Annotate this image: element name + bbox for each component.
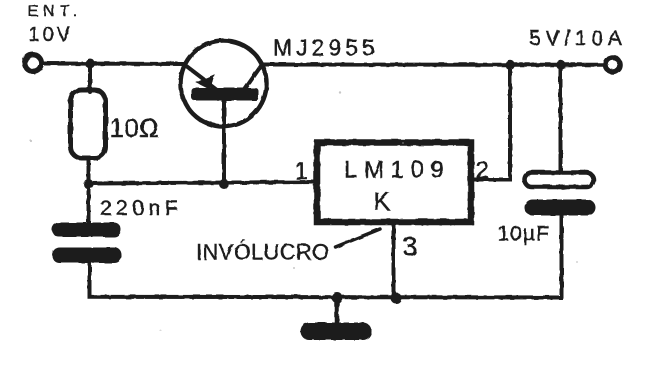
ground <box>301 298 372 341</box>
pin 1 label <box>295 158 308 185</box>
label 10uF <box>498 223 550 246</box>
svg-text:1: 1 <box>295 158 308 185</box>
node junction capacitor C2 riser <box>556 60 566 70</box>
wire resistor bottom to middle node <box>87 158 91 184</box>
label MJ2955 <box>273 35 379 61</box>
svg-text:K: K <box>374 188 391 216</box>
scan speckles <box>30 91 578 331</box>
wire pin 2 to output riser <box>471 65 510 180</box>
transistor Q1 MJ2955 <box>181 41 267 127</box>
wire output node down to capacitor C2 <box>559 65 563 173</box>
wire capacitor C2 to bottom rail <box>560 216 564 298</box>
svg-text:10V: 10V <box>29 24 74 46</box>
svg-text:INVÓLUCRO: INVÓLUCRO <box>196 240 330 265</box>
svg-text:220nF: 220nF <box>100 197 182 220</box>
svg-text:3: 3 <box>403 232 418 262</box>
svg-text:ENT.: ENT. <box>28 3 83 20</box>
svg-text:10µF: 10µF <box>498 223 550 246</box>
resistor R1 10 ohm <box>71 90 106 158</box>
leader line involucro to case pin <box>336 229 381 247</box>
node junction pin 3 <box>391 293 402 304</box>
capacitor C1 220nF plate bottom <box>52 248 122 264</box>
output terminal 5V/10A <box>605 57 620 72</box>
svg-text:10Ω: 10Ω <box>110 113 160 143</box>
capacitor C2 10uF plate negative <box>525 200 596 216</box>
wire transistor base lead down to middle wire <box>222 99 226 184</box>
label ENT. <box>28 3 83 20</box>
wire capacitor C1 bottom to bottom rail <box>90 263 562 298</box>
node junction input/resistor <box>85 59 95 69</box>
label 220nF <box>100 197 182 220</box>
pin 3 label <box>403 232 418 262</box>
svg-text:5V/10A: 5V/10A <box>529 27 627 50</box>
wire junction down to resistor top <box>88 64 92 93</box>
input terminal ENT. 10V <box>25 55 42 72</box>
node junction ground <box>332 292 343 303</box>
node junction transistor base <box>219 179 229 189</box>
label K <box>374 188 391 216</box>
label 10 ohm <box>110 113 160 143</box>
wire node to capacitor C1 top <box>87 184 91 224</box>
regulator U1 LM109 <box>317 143 471 223</box>
svg-text:MJ2955: MJ2955 <box>273 35 379 61</box>
wire pin 3 down to bottom rail <box>392 222 396 298</box>
wire input terminal to transistor emitter <box>42 62 186 67</box>
wire middle node to regulator pin 1 <box>89 182 318 184</box>
label INVOLUCRO <box>196 240 330 265</box>
label 5V/10A <box>529 27 627 50</box>
pin 2 label <box>476 157 489 184</box>
node junction pin2 riser <box>505 60 515 70</box>
label LM109 <box>344 157 450 184</box>
capacitor C1 220nF plate top <box>52 223 121 238</box>
node junction resistor/capacitor C1 <box>84 179 94 189</box>
wire transistor collector to output terminal <box>263 63 605 67</box>
svg-text:LM109: LM109 <box>344 157 450 184</box>
capacitor C2 10uF plate positive <box>525 173 594 188</box>
label 10V <box>29 24 74 46</box>
